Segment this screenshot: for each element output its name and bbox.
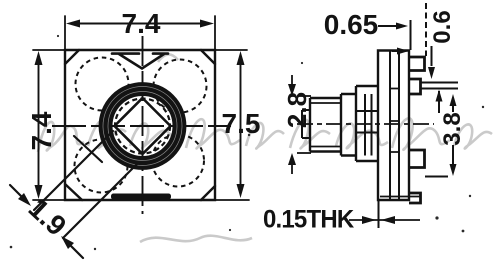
svg-text:7.4: 7.4 — [122, 8, 161, 39]
svg-text:2.8: 2.8 — [282, 92, 312, 128]
svg-text:7.4: 7.4 — [26, 111, 57, 150]
svg-text:0.15THK: 0.15THK — [263, 206, 354, 234]
svg-text:0.65: 0.65 — [324, 9, 379, 40]
svg-text:7.5: 7.5 — [222, 108, 261, 139]
svg-text:3.8: 3.8 — [439, 112, 466, 145]
svg-text:0.6: 0.6 — [429, 10, 456, 43]
